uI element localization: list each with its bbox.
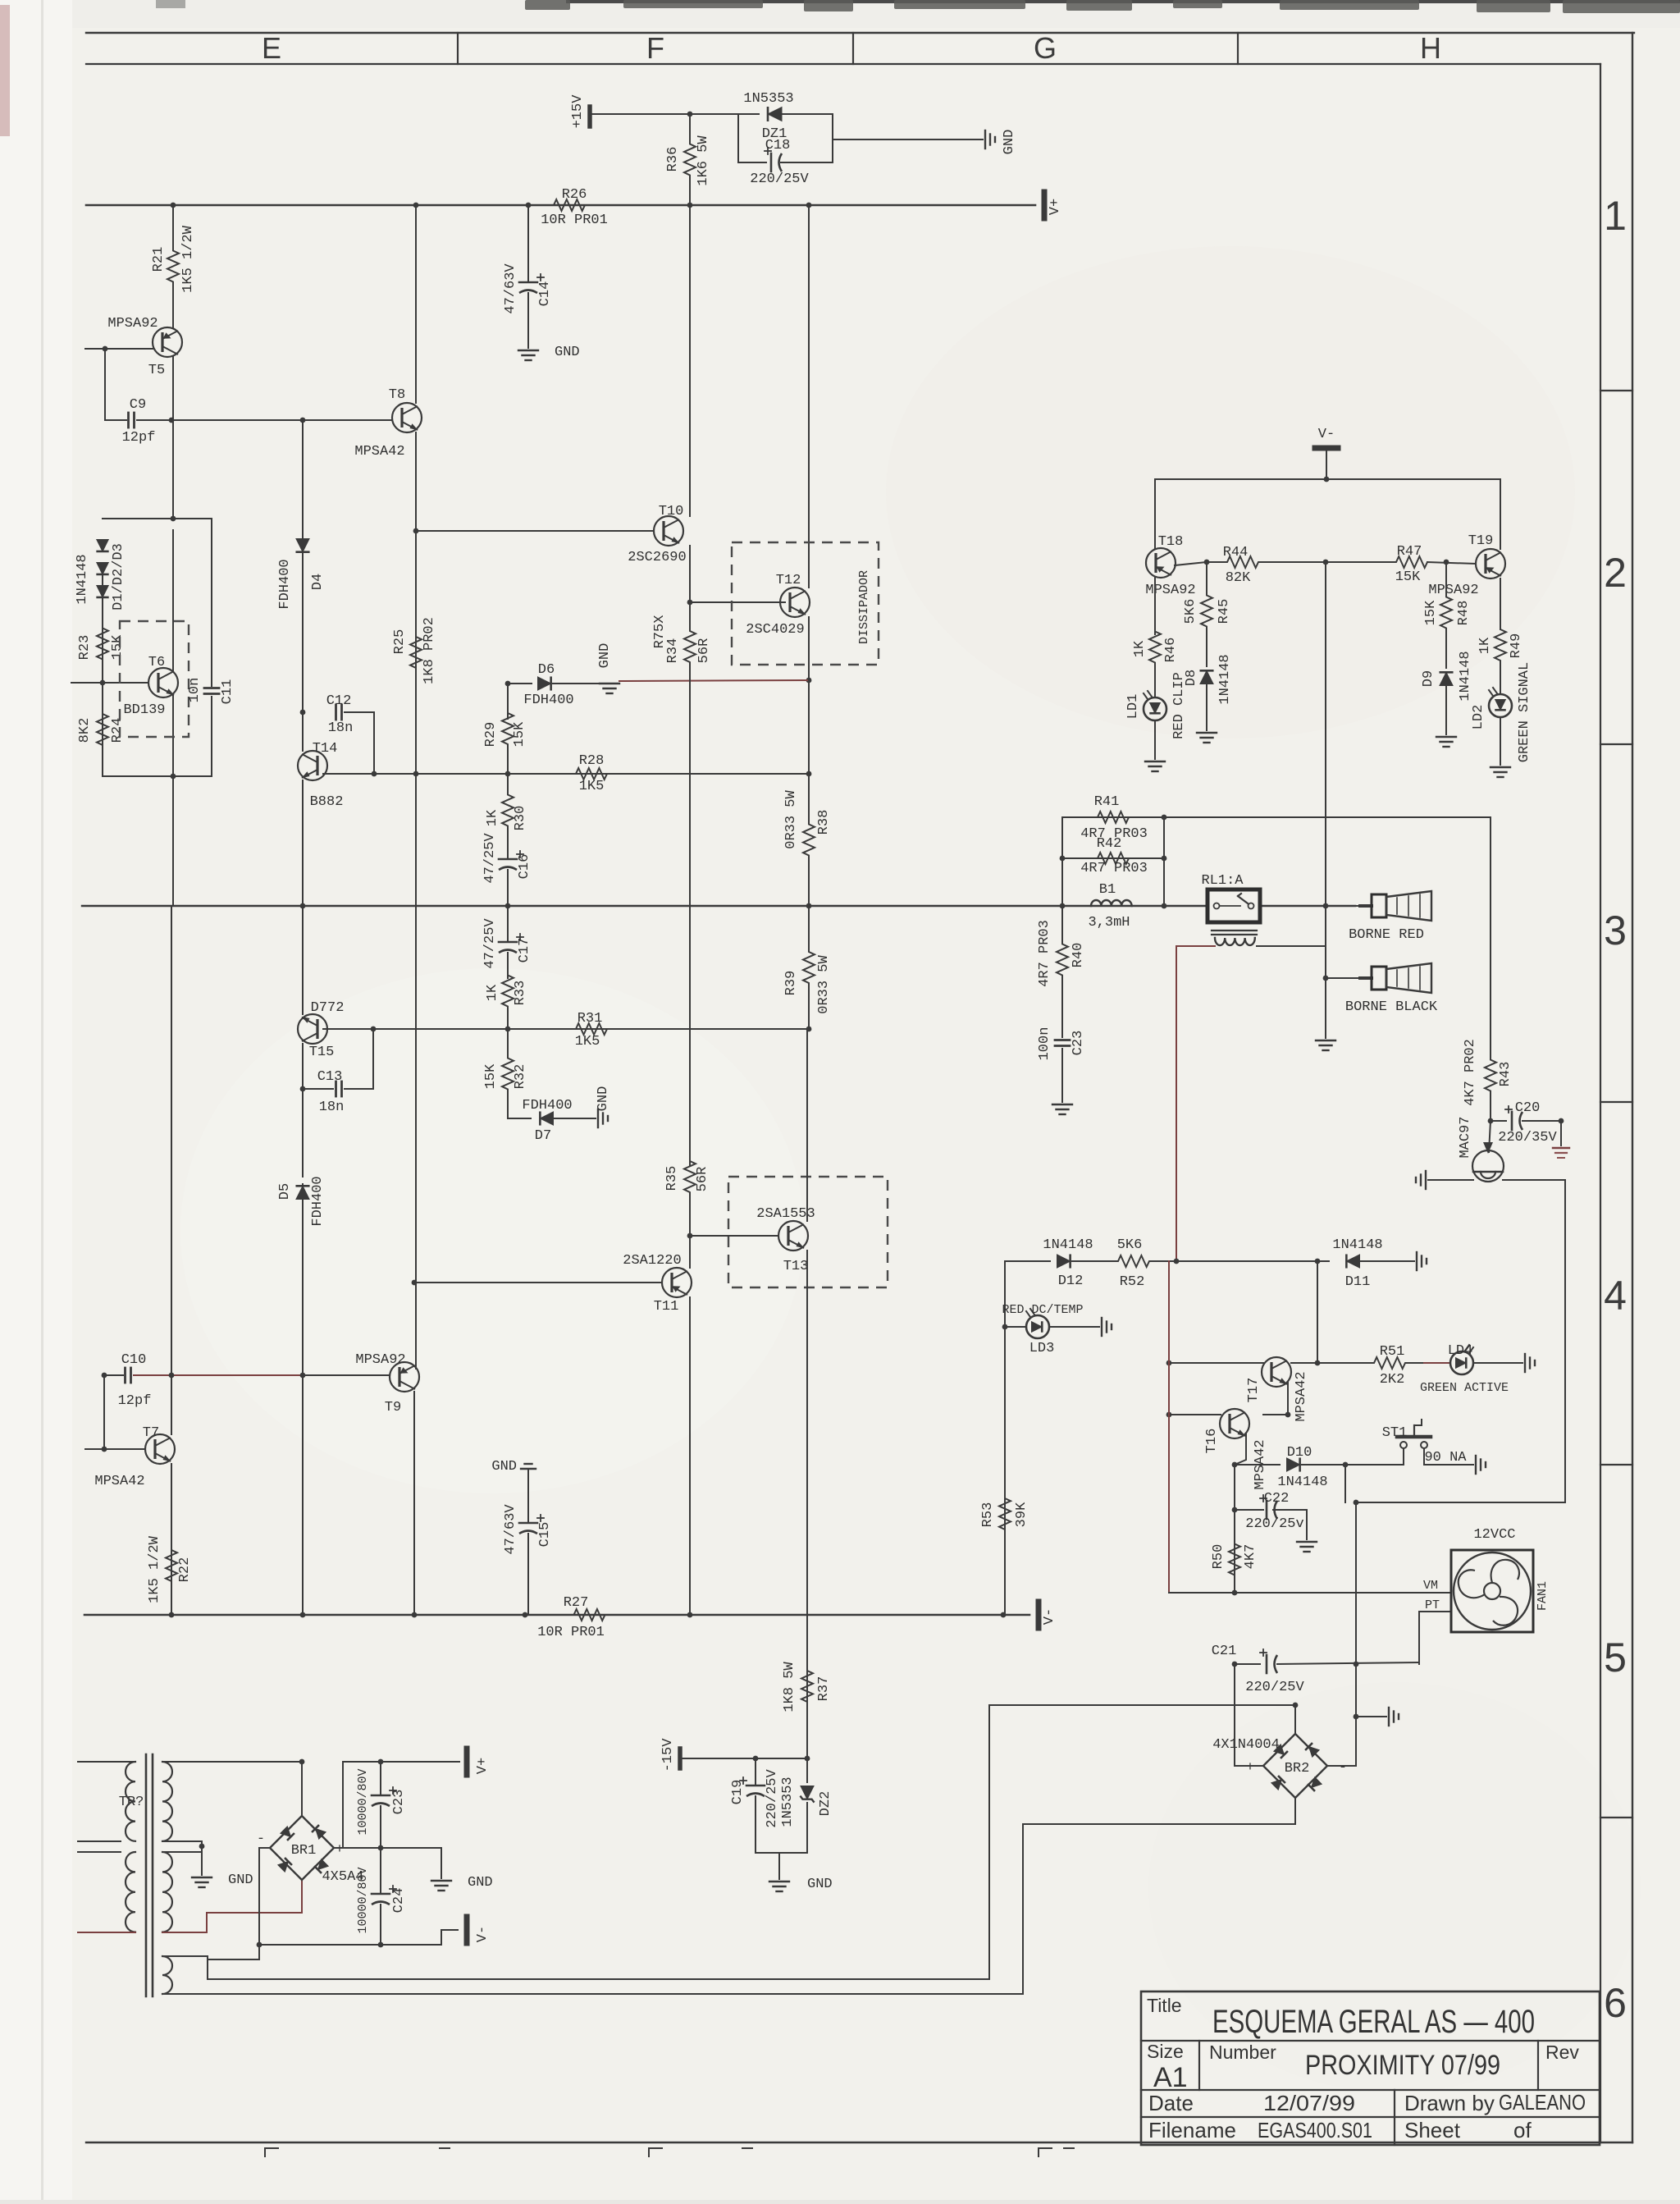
svg-text:47/25V: 47/25V (482, 833, 498, 884)
resistor R26 (532, 199, 607, 211)
svg-text:R40: R40 (1071, 943, 1086, 968)
pushbutton ST1 (1400, 1442, 1407, 1448)
terminal V- (1036, 1602, 1042, 1628)
wire D10 junction to triac wire (1344, 1465, 1346, 1502)
transformer primary winding lower (126, 1852, 135, 1932)
svg-text:4K7 PR02: 4K7 PR02 (1463, 1039, 1478, 1106)
terminal -15V (678, 1749, 682, 1768)
wire -15V row (680, 1758, 807, 1759)
svg-text:0R33 5W: 0R33 5W (783, 790, 799, 849)
svg-text:-15V: -15V (660, 1738, 676, 1772)
wire C21 right (1277, 1662, 1419, 1664)
svg-text:Date: Date (1148, 2091, 1194, 2115)
svg-text:of: of (1513, 2118, 1532, 2142)
svg-text:15K: 15K (483, 1063, 499, 1089)
svg-text:R21: R21 (151, 247, 167, 272)
svg-text:R36: R36 (665, 147, 681, 172)
wire C20 row (1491, 1120, 1506, 1122)
diode D5 (295, 1186, 309, 1199)
capacitor C13 (335, 1081, 337, 1096)
svg-text:T16: T16 (1204, 1429, 1220, 1454)
svg-text:C17: C17 (517, 938, 532, 963)
svg-text:56R: 56R (695, 1167, 710, 1192)
svg-text:R22: R22 (177, 1557, 193, 1583)
resistor R45 (1201, 562, 1212, 660)
transformer secondary winding S1 (162, 1762, 172, 1841)
ground D6 (600, 683, 619, 684)
resistor R31 (541, 1023, 641, 1035)
wire T12 base row (690, 601, 785, 603)
wire D6 to GND (553, 683, 607, 684)
capacitor C12 (335, 705, 337, 720)
wire BR1 right to V+ node (334, 1762, 459, 1848)
svg-text:BR1: BR1 (291, 1843, 317, 1859)
svg-text:DISSIPADOR: DISSIPADOR (857, 570, 871, 644)
svg-text:PT: PT (1425, 1598, 1440, 1612)
diode DZ1 1N5353 (738, 113, 759, 115)
svg-text:12/07/99: 12/07/99 (1263, 2091, 1355, 2115)
dashed thermal box T6 (120, 621, 189, 737)
svg-text:D5: D5 (277, 1183, 293, 1200)
svg-text:D6: D6 (538, 662, 555, 678)
svg-text:MPSA92: MPSA92 (355, 1352, 405, 1368)
svg-text:V+: V+ (475, 1758, 491, 1774)
svg-text:MPSA42: MPSA42 (94, 1474, 144, 1489)
svg-text:T12: T12 (776, 573, 801, 588)
svg-text:3: 3 (1604, 908, 1627, 953)
dashed box T13 (728, 1177, 888, 1287)
svg-text:R38: R38 (816, 810, 832, 835)
wire triac right (1356, 1180, 1565, 1502)
svg-text:C24: C24 (391, 1888, 407, 1914)
capacitor C23 100n (1061, 1013, 1063, 1037)
svg-text:GND: GND (228, 1872, 253, 1888)
wire D11-junction down (1317, 1261, 1318, 1363)
resistor R52 (1091, 1255, 1176, 1267)
ground top right (984, 130, 986, 149)
svg-text:B882: B882 (310, 794, 344, 810)
binding post BORNE RED (1360, 904, 1372, 908)
svg-text:10R PR01: 10R PR01 (537, 1625, 605, 1640)
diode D12 (1057, 1254, 1071, 1268)
svg-text:1N5353: 1N5353 (780, 1776, 796, 1827)
svg-text:FDH400: FDH400 (523, 693, 573, 708)
resistor R23 (97, 605, 108, 683)
junction dots V- rail (169, 1612, 175, 1618)
wire T19 emitter column (1500, 578, 1501, 629)
ground C14 (518, 350, 538, 351)
inductor B1 (1091, 900, 1132, 906)
scan artifacts top edge (566, 0, 1680, 3)
wire T5-base to C9 (104, 349, 106, 420)
wire primary upper leads (78, 1761, 135, 1763)
svg-text:C16: C16 (517, 854, 532, 880)
svg-text:D10: D10 (1287, 1445, 1312, 1461)
transistor T14 (298, 751, 327, 780)
svg-text:F: F (646, 31, 664, 65)
svg-text:15K: 15K (110, 634, 126, 660)
svg-text:GND: GND (597, 643, 613, 669)
capacitor C23 10000/80V (380, 1762, 381, 1795)
svg-text:D772: D772 (311, 1000, 345, 1016)
svg-text:15K: 15K (1395, 569, 1421, 585)
wire BR2 right to C21 column (1327, 1765, 1356, 1767)
resistor R46 (1149, 611, 1161, 683)
resistor R29 (502, 684, 514, 774)
transformer primary winding upper (126, 1762, 135, 1841)
svg-text:R48: R48 (1456, 601, 1472, 626)
wire C21-node down to BR2 (1355, 1502, 1357, 1717)
wire R44 junction down to relay rail (1325, 562, 1326, 906)
svg-text:MPSA92: MPSA92 (1145, 583, 1195, 598)
wire T12-emitter column to R38 (808, 680, 810, 774)
svg-text:R47: R47 (1397, 544, 1422, 560)
capacitor C15 (527, 1469, 529, 1523)
svg-text:T5: T5 (148, 363, 165, 378)
transformer secondary winding S2 (162, 1852, 172, 1932)
svg-text:C13: C13 (317, 1069, 343, 1085)
svg-text:E: E (262, 31, 281, 65)
svg-text:MPSA42: MPSA42 (354, 444, 404, 460)
svg-text:1N4148: 1N4148 (75, 554, 90, 604)
capacitor C17 (507, 906, 509, 942)
wire T10 collector (689, 205, 691, 516)
wire mid output rail (82, 905, 1207, 907)
wire primary lower leads (78, 1851, 121, 1853)
wire R51 row (1317, 1362, 1362, 1364)
svg-text:1K: 1K (485, 984, 500, 1001)
svg-text:GALEANO: GALEANO (1499, 2090, 1586, 2115)
capacitor C16 (507, 847, 509, 859)
svg-text:Title: Title (1147, 1995, 1182, 2016)
svg-text:4R7 PR03: 4R7 PR03 (1037, 920, 1052, 987)
svg-text:V-: V- (475, 1926, 491, 1942)
resistor R51 (1355, 1357, 1424, 1369)
wire control top rail (1155, 478, 1500, 480)
svg-text:1K: 1K (1477, 637, 1493, 654)
svg-text:A1: A1 (1153, 2062, 1188, 2093)
wire D4 column (302, 420, 304, 539)
wire GND stub right of BR1 (441, 1848, 442, 1878)
diode D1 (96, 540, 108, 551)
wire T18 emitter to R44 (1175, 562, 1207, 565)
wire D12 to R52 (1072, 1260, 1091, 1262)
svg-text:R50: R50 (1211, 1544, 1226, 1570)
ground LD2 (1491, 766, 1510, 768)
wire +15V row (590, 113, 738, 115)
LED LD1 (1154, 683, 1156, 697)
svg-text:1: 1 (1604, 193, 1627, 239)
wire C22 to GND (1273, 1510, 1307, 1539)
diode D10 (1287, 1457, 1300, 1471)
transistor T11 (662, 1268, 692, 1297)
svg-text:D11: D11 (1345, 1274, 1371, 1290)
wire D7 to GND (553, 1118, 596, 1119)
svg-text:47/63V: 47/63V (503, 263, 518, 314)
wire T11 collector (689, 1201, 691, 1268)
svg-text:T6: T6 (148, 655, 165, 670)
svg-text:D12: D12 (1058, 1273, 1084, 1289)
svg-text:47/25V: 47/25V (482, 918, 498, 969)
svg-text:0R33 5W: 0R33 5W (816, 955, 832, 1014)
wire V+ rail (86, 204, 1035, 207)
transistor T13 (778, 1221, 808, 1251)
capacitor C19 (755, 1758, 756, 1786)
wire T6 column (172, 530, 174, 671)
ground LD3 (1101, 1318, 1102, 1336)
transistor T12 (780, 588, 810, 617)
wire T10 emitter (689, 546, 691, 602)
svg-text:GND: GND (596, 1086, 611, 1112)
svg-text:EGAS400.S01: EGAS400.S01 (1258, 2118, 1372, 2142)
svg-text:90 NA: 90 NA (1424, 1450, 1467, 1466)
diode D4 (295, 539, 309, 552)
wire R29 column top (507, 684, 509, 719)
wire T17 base row (1169, 1362, 1263, 1364)
svg-text:Drawn by: Drawn by (1404, 2091, 1495, 2115)
wire T7 base (85, 1448, 145, 1450)
wire R41 node to R43 column (1164, 817, 1491, 1030)
resistor R21 (167, 205, 179, 327)
wire C12 link (345, 712, 374, 774)
svg-text:GND: GND (807, 1877, 833, 1892)
svg-text:C11: C11 (220, 679, 235, 705)
svg-text:MAC97: MAC97 (1458, 1116, 1473, 1158)
svg-text:R51: R51 (1380, 1344, 1405, 1360)
transistor T15 (298, 1014, 327, 1044)
svg-text:B1: B1 (1099, 882, 1116, 898)
svg-text:T7: T7 (143, 1425, 159, 1441)
ground triac gate side (1425, 1171, 1427, 1189)
svg-text:5K6: 5K6 (1183, 599, 1198, 624)
resistor R37 (801, 1641, 813, 1731)
svg-text:C12: C12 (326, 693, 352, 709)
svg-text:T11: T11 (654, 1299, 679, 1315)
wire T16/T17 base column (1168, 1261, 1170, 1593)
resistor R22 (166, 1516, 177, 1615)
svg-text:56R: 56R (696, 638, 712, 664)
svg-text:Filename: Filename (1148, 2118, 1236, 2142)
transistor T16 (1220, 1409, 1249, 1438)
wire T10 base row (416, 530, 654, 532)
transistor T7 (145, 1434, 175, 1464)
svg-text:6: 6 (1604, 1980, 1627, 2026)
wire T5 base (85, 348, 153, 350)
wire T18 base column (1154, 578, 1156, 634)
ground ST1 (1475, 1456, 1477, 1474)
svg-text:R30: R30 (513, 806, 528, 831)
bridge rectifier BR1 (270, 1816, 334, 1880)
transformer core (145, 1754, 148, 1996)
wire T8 collector (415, 205, 417, 403)
ground centre tap (192, 1877, 212, 1878)
svg-text:10R PR01: 10R PR01 (541, 213, 608, 228)
svg-text:MPSA92: MPSA92 (1428, 583, 1478, 598)
wire triac left to ground (1428, 1179, 1473, 1181)
svg-text:1K5 1/2W: 1K5 1/2W (180, 225, 196, 292)
dashed box DISSIPADOR T12 (732, 542, 879, 665)
svg-text:1K6 5W: 1K6 5W (696, 135, 711, 186)
svg-text:FDH400: FDH400 (522, 1098, 572, 1113)
svg-text:ESQUEMA GERAL AS — 400: ESQUEMA GERAL AS — 400 (1212, 2004, 1535, 2040)
wire relay coil right (1257, 945, 1326, 947)
LED LD4 (1450, 1351, 1473, 1374)
svg-text:MPSA92: MPSA92 (107, 316, 157, 332)
resistor R40 (1057, 906, 1068, 1013)
svg-text:10n: 10n (187, 678, 203, 703)
svg-text:LD1: LD1 (1125, 694, 1141, 720)
svg-text:GND: GND (555, 345, 580, 360)
svg-text:BD139: BD139 (123, 702, 165, 718)
wire BORNE RED stub (1326, 905, 1360, 907)
wire below C19/DZ2 (756, 1852, 807, 1854)
diode D11 (1346, 1254, 1359, 1268)
resistor R34 (684, 602, 696, 1165)
svg-text:R42: R42 (1097, 836, 1122, 852)
svg-text:18n: 18n (328, 720, 354, 736)
transistor T5 (153, 327, 182, 357)
wire T11 emitter (689, 1297, 691, 1615)
svg-text:R29: R29 (483, 722, 499, 748)
diode D6 (508, 683, 532, 684)
svg-text:3,3mH: 3,3mH (1088, 915, 1130, 931)
svg-text:C9: C9 (130, 397, 146, 413)
svg-text:2SA1553: 2SA1553 (756, 1206, 815, 1222)
resistor R48 (1440, 562, 1452, 663)
wire BR2 gnd stub (1356, 1716, 1386, 1717)
svg-text:C19: C19 (730, 1780, 746, 1805)
resistor R39 (803, 906, 815, 1029)
wire R41/R42 loop (1062, 817, 1164, 906)
svg-text:-: - (1339, 1760, 1347, 1776)
wire S2 bottom to BR1 (162, 1880, 302, 1932)
svg-text:39K: 39K (1014, 1502, 1029, 1527)
svg-text:2SC4029: 2SC4029 (746, 622, 804, 638)
svg-text:12pf: 12pf (122, 430, 156, 446)
wire LD3 row (1005, 1326, 1026, 1328)
svg-text:1N4148: 1N4148 (1217, 654, 1233, 704)
svg-text:FAN1: FAN1 (1536, 1581, 1550, 1611)
svg-text:R31: R31 (577, 1011, 603, 1027)
capacitor C21 (1266, 1655, 1268, 1673)
svg-text:5K6: 5K6 (1117, 1237, 1143, 1253)
svg-text:R23: R23 (77, 635, 93, 661)
svg-text:82K: 82K (1226, 570, 1251, 586)
svg-text:C23: C23 (391, 1790, 407, 1815)
svg-text:R46: R46 (1163, 638, 1179, 663)
svg-text:MPSA42: MPSA42 (1294, 1371, 1309, 1421)
resistor R24 (97, 683, 108, 776)
svg-text:R52: R52 (1120, 1274, 1145, 1290)
svg-text:T8: T8 (389, 387, 405, 403)
relay RL1:A (1207, 889, 1260, 922)
wire D12 row start (1005, 1260, 1050, 1262)
svg-text:8K2: 8K2 (77, 718, 93, 743)
junction dots driver column (413, 528, 419, 534)
svg-text:G: G (1034, 31, 1057, 65)
svg-text:C20: C20 (1515, 1100, 1541, 1116)
svg-text:RL1:A: RL1:A (1201, 873, 1244, 889)
wire T13 base row (690, 1235, 778, 1237)
wire VM row (1169, 1592, 1451, 1594)
wire V- row supply (259, 1944, 381, 1946)
svg-text:220/25V: 220/25V (765, 1769, 780, 1828)
wire T14 base row (323, 773, 809, 775)
svg-text:R39: R39 (783, 971, 799, 996)
svg-text:R35: R35 (664, 1166, 680, 1191)
fan FAN1 (1451, 1550, 1533, 1632)
svg-text:C23: C23 (1071, 1031, 1086, 1056)
wire R47 to T19 base (1427, 562, 1476, 564)
wire S3 bottom lead (162, 1993, 1023, 1995)
svg-text:BORNE BLACK: BORNE BLACK (1345, 999, 1438, 1015)
svg-text:1N4148: 1N4148 (1458, 651, 1473, 701)
svg-text:T9: T9 (385, 1400, 401, 1415)
diode D3 (96, 586, 108, 597)
wire T7 column (171, 906, 172, 1434)
wire C22 row (1235, 1509, 1263, 1511)
svg-text:1N4148: 1N4148 (1277, 1475, 1327, 1490)
svg-text:T13: T13 (783, 1259, 809, 1274)
svg-text:1K5: 1K5 (579, 779, 605, 794)
svg-text:V-: V- (1042, 1608, 1057, 1625)
ground borne node (1316, 1040, 1335, 1041)
wire ST1 right pin to GND (1424, 1448, 1473, 1465)
transistor T8 (392, 403, 422, 432)
wire T15 base row (323, 1028, 809, 1030)
wire T16 emitter column (1235, 1434, 1246, 1465)
terminal V- supply (464, 1917, 470, 1943)
wire R44 to R47 junction (1323, 560, 1329, 565)
resistor R25 (410, 531, 422, 774)
wire R53 column (1004, 1261, 1006, 1615)
svg-text:1N4148: 1N4148 (1043, 1237, 1093, 1253)
resistor R50 (1229, 1526, 1240, 1593)
svg-text:GREEN ACTIVE: GREEN ACTIVE (1420, 1381, 1509, 1395)
svg-text:BORNE RED: BORNE RED (1349, 927, 1424, 943)
diode D7 (507, 1103, 509, 1118)
wire borne node column (1325, 906, 1326, 1038)
wire T16 base row (1169, 1414, 1221, 1415)
svg-text:R43: R43 (1498, 1062, 1513, 1087)
wire BORNE BLACK stub (1326, 977, 1360, 979)
svg-text:GND: GND (468, 1875, 493, 1891)
wire C13 to column (303, 1088, 333, 1090)
wire D10 to ST1 (1302, 1464, 1404, 1466)
svg-text:2K2: 2K2 (1380, 1372, 1405, 1388)
ground D11 (1416, 1252, 1417, 1270)
wire T11 base row (414, 1282, 662, 1283)
svg-text:4R7 PR03: 4R7 PR03 (1080, 861, 1148, 876)
svg-text:R26: R26 (562, 187, 587, 203)
resistor R35 (684, 1152, 696, 1201)
transistor T6 T6 (148, 668, 178, 697)
terminal V+ (1042, 192, 1048, 218)
terminal +15V (587, 107, 592, 126)
svg-text:Sheet: Sheet (1404, 2118, 1461, 2142)
wire T19 collector (1500, 479, 1501, 549)
svg-text:R45: R45 (1217, 599, 1232, 624)
ground D8 (1197, 732, 1217, 734)
svg-text:220/35V: 220/35V (1498, 1130, 1557, 1145)
svg-text:FDH400: FDH400 (310, 1176, 326, 1226)
ground C23 (1052, 1104, 1072, 1105)
wire S3 top lead (162, 1956, 208, 1979)
svg-text:1K8 5W: 1K8 5W (782, 1662, 797, 1712)
svg-text:Rev: Rev (1545, 2042, 1579, 2063)
LED LD3 (1026, 1315, 1049, 1338)
svg-text:1K: 1K (1132, 640, 1148, 657)
